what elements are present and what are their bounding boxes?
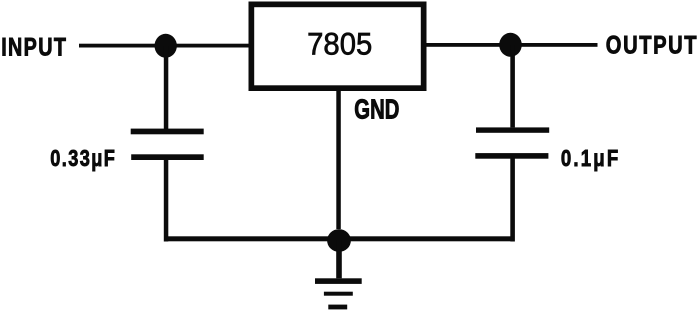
- wire C1 to ground bus: [164, 160, 169, 242]
- capacitor C1 top plate: [131, 129, 204, 135]
- wire output junction to C2: [510, 45, 515, 127]
- wire input junction to C1: [164, 46, 169, 129]
- capacitor C2 bottom plate: [475, 153, 548, 159]
- node input junction: [155, 34, 177, 58]
- svg-text:0.1μF: 0.1μF: [561, 146, 620, 171]
- node ground junction: [327, 229, 351, 252]
- capacitor C2 top plate: [476, 127, 549, 132]
- wire C2 to ground bus: [510, 158, 515, 242]
- label OUTPUT: [606, 30, 697, 59]
- ground bar 2: [324, 292, 353, 296]
- label 7805: [307, 26, 372, 61]
- capacitor C1 bottom plate: [131, 154, 204, 160]
- node output junction: [499, 33, 522, 57]
- regulator U1 7805 box: [251, 4, 423, 88]
- wire output lead: [427, 43, 598, 47]
- svg-text:OUTPUT: OUTPUT: [606, 30, 697, 59]
- wire ground bus: [164, 236, 514, 241]
- svg-text:INPUT: INPUT: [1, 33, 67, 61]
- svg-text:GND: GND: [354, 95, 399, 126]
- wire ground stub: [336, 240, 342, 278]
- label C1 value 0.33uF: [50, 146, 116, 172]
- label C2 value 0.1uF: [561, 146, 620, 171]
- svg-text:7805: 7805: [307, 26, 372, 61]
- label INPUT: [1, 33, 67, 61]
- svg-text:0.33μF: 0.33μF: [50, 146, 116, 172]
- ground bar 1: [315, 278, 362, 284]
- ground bar 3: [328, 305, 347, 310]
- wire U1 ground pin to bottom junction: [336, 91, 341, 229]
- wire input lead: [79, 44, 251, 48]
- label GND: [354, 95, 399, 126]
